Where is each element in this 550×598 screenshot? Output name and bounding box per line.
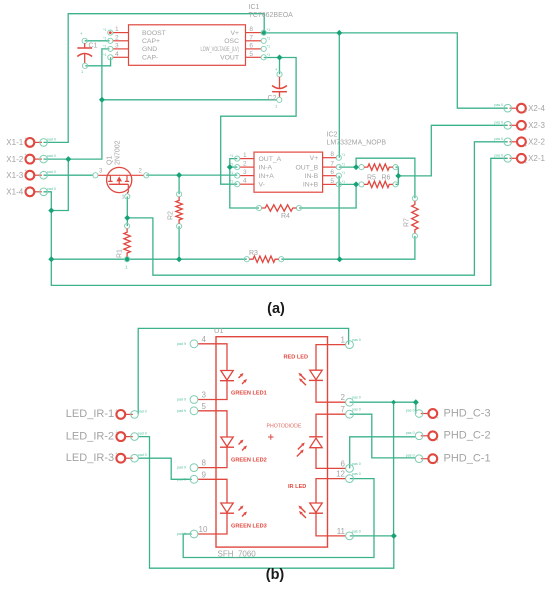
svg-text:pad 0: pad 0 (138, 453, 147, 457)
svg-text:*1: *1 (230, 180, 233, 184)
svg-text:1: 1 (275, 104, 278, 109)
svg-text:1: 1 (243, 152, 247, 159)
svg-text:1: 1 (125, 265, 128, 270)
svg-text:*1: *1 (342, 153, 345, 157)
svg-text:+: + (524, 110, 527, 116)
svg-text:V-: V- (259, 181, 265, 188)
svg-text:pad 9: pad 9 (177, 532, 186, 536)
svg-text:(a): (a) (267, 301, 285, 317)
svg-text:pad 0: pad 0 (138, 409, 147, 413)
svg-text:X1-1: X1-1 (6, 138, 23, 147)
svg-text:X2-1: X2-1 (528, 154, 545, 163)
svg-text:X2-4: X2-4 (528, 104, 545, 113)
svg-text:pas 0: pas 0 (494, 137, 503, 141)
svg-text:*1: *1 (103, 44, 106, 48)
svg-text:4: 4 (115, 51, 119, 58)
svg-text:3: 3 (115, 42, 119, 49)
svg-text:+: + (24, 136, 27, 142)
svg-text:*1: *1 (267, 44, 270, 48)
svg-text:*1: *1 (342, 180, 345, 184)
svg-text:IN-A: IN-A (259, 164, 273, 171)
svg-text:pad 0: pad 0 (47, 170, 56, 174)
svg-text:4: 4 (243, 178, 247, 185)
svg-text:R4: R4 (281, 213, 290, 220)
svg-text:GREEN LED2: GREEN LED2 (231, 458, 267, 464)
svg-text:VOUT: VOUT (220, 55, 239, 62)
svg-text:2: 2 (115, 34, 119, 41)
svg-text:pad 9: pad 9 (177, 409, 186, 413)
svg-text:X1-2: X1-2 (6, 155, 23, 164)
svg-text:TC7662BEOA: TC7662BEOA (249, 12, 294, 19)
svg-text:SFH_7060: SFH_7060 (218, 550, 257, 559)
svg-text:LED_IR-2: LED_IR-2 (66, 430, 114, 442)
svg-text:3: 3 (99, 169, 103, 175)
svg-text:CAP-: CAP- (142, 55, 158, 62)
svg-text:+: + (24, 185, 27, 191)
svg-text:IN-B: IN-B (305, 173, 319, 180)
svg-text:*1: *1 (230, 163, 233, 167)
svg-text:8: 8 (202, 459, 207, 468)
svg-text:CAP+: CAP+ (142, 38, 160, 45)
svg-text:LM7332MA_NOPB: LM7332MA_NOPB (327, 140, 387, 147)
svg-text:LED_IR-3: LED_IR-3 (66, 452, 114, 464)
svg-text:+: + (524, 160, 527, 166)
svg-text:6: 6 (330, 169, 334, 176)
svg-text:7: 7 (249, 34, 253, 41)
svg-text:+: + (24, 169, 27, 175)
svg-text:IN+A: IN+A (259, 173, 275, 180)
svg-text:RED LED: RED LED (284, 355, 309, 361)
svg-text:OUT_A: OUT_A (259, 156, 282, 163)
svg-text:pas 0: pas 0 (494, 103, 503, 107)
svg-text:pas 0: pas 0 (352, 408, 361, 412)
svg-text:pad 0: pad 0 (47, 137, 56, 141)
svg-text:2: 2 (341, 393, 346, 402)
svg-text:+: + (115, 408, 118, 414)
svg-text:pad 9: pad 9 (177, 466, 186, 470)
svg-text:+: + (524, 143, 527, 149)
svg-text:BOOST: BOOST (142, 30, 166, 37)
svg-text:U1: U1 (214, 326, 224, 335)
svg-text:12: 12 (336, 470, 345, 479)
svg-text:+: + (80, 31, 83, 36)
svg-text:X1-3: X1-3 (6, 171, 23, 180)
svg-text:pas 0: pas 0 (406, 454, 415, 458)
svg-text:*1: *1 (103, 28, 106, 32)
svg-text:GND: GND (142, 46, 157, 53)
svg-text:11: 11 (337, 527, 346, 536)
svg-text:C1: C1 (89, 43, 98, 50)
svg-text:2: 2 (243, 161, 247, 168)
svg-text:7: 7 (330, 161, 334, 168)
svg-text:5: 5 (249, 51, 253, 58)
svg-text:pas 0: pas 0 (352, 462, 361, 466)
svg-text:PHD_C-1: PHD_C-1 (444, 453, 491, 465)
svg-text:5: 5 (330, 178, 334, 185)
svg-text:pas 0: pas 0 (352, 338, 361, 342)
svg-text:9: 9 (202, 470, 207, 479)
svg-text:+: + (24, 153, 27, 159)
svg-text:OUT_B: OUT_B (296, 164, 319, 171)
svg-text:R1: R1 (117, 249, 124, 258)
svg-text:*1: *1 (342, 171, 345, 175)
svg-text:PHD_C-3: PHD_C-3 (444, 407, 491, 419)
svg-text:*1: *1 (103, 53, 106, 57)
svg-text:LED_IR-1: LED_IR-1 (66, 408, 114, 420)
svg-text:IC1: IC1 (249, 4, 260, 11)
svg-text:PHD_C-2: PHD_C-2 (444, 430, 491, 442)
svg-text:pas 0: pas 0 (352, 472, 361, 476)
svg-text:10: 10 (199, 525, 208, 534)
svg-text:GREEN LED3: GREEN LED3 (231, 524, 267, 530)
svg-text:pas 0: pas 0 (406, 409, 415, 413)
svg-text:+: + (436, 437, 439, 443)
svg-text:pas 0: pas 0 (494, 120, 503, 124)
svg-text:*1: *1 (267, 36, 270, 40)
svg-text:*1: *1 (230, 171, 233, 175)
svg-text:1: 1 (122, 195, 125, 201)
svg-text:pas 0: pas 0 (352, 529, 361, 533)
svg-text:1: 1 (341, 336, 346, 345)
svg-text:X2-3: X2-3 (528, 121, 545, 130)
svg-text:pad 9: pad 9 (177, 477, 186, 481)
svg-text:X1-4: X1-4 (6, 188, 23, 197)
svg-text:PHOTODIODE: PHOTODIODE (267, 424, 302, 430)
svg-text:*1: *1 (267, 28, 270, 32)
svg-text:IR LED: IR LED (288, 484, 306, 490)
svg-text:*1: *1 (103, 36, 106, 40)
svg-text:pas 0: pas 0 (352, 396, 361, 400)
svg-text:2: 2 (139, 169, 143, 175)
svg-text:1: 1 (81, 69, 84, 74)
svg-text:3: 3 (202, 391, 207, 400)
svg-text:*1: *1 (230, 154, 233, 158)
svg-text:pas 0: pas 0 (406, 431, 415, 435)
svg-text:6: 6 (341, 459, 346, 468)
svg-text:IN+B: IN+B (303, 182, 319, 189)
svg-text:IC2: IC2 (327, 132, 338, 139)
svg-text:4: 4 (202, 335, 207, 344)
svg-text:+: + (436, 460, 439, 466)
svg-text:pad 9: pad 9 (177, 342, 186, 346)
svg-text:+: + (436, 415, 439, 421)
svg-text:+: + (275, 67, 278, 72)
svg-text:6: 6 (249, 42, 253, 49)
svg-text:+: + (115, 452, 118, 458)
svg-text:V+: V+ (230, 30, 239, 37)
svg-text:8: 8 (330, 151, 334, 158)
svg-text:pad 9: pad 9 (177, 398, 186, 402)
svg-text:1: 1 (115, 26, 119, 33)
svg-text:8: 8 (249, 26, 253, 33)
svg-text:pad 0: pad 0 (138, 432, 147, 436)
svg-text:pad 0: pad 0 (47, 187, 56, 191)
svg-text:LOW_VOLTAGE_(LV): LOW_VOLTAGE_(LV) (201, 46, 240, 53)
svg-text:V+: V+ (310, 155, 319, 162)
svg-text:R7: R7 (404, 218, 411, 227)
svg-text:*1: *1 (267, 53, 270, 57)
svg-text:+: + (524, 127, 527, 133)
svg-text:3: 3 (243, 169, 247, 176)
svg-text:R2: R2 (168, 211, 175, 220)
svg-text:5: 5 (202, 402, 207, 411)
svg-text:pad 0: pad 0 (47, 154, 56, 158)
svg-text:C2: C2 (268, 95, 277, 102)
svg-text:+: + (115, 430, 118, 436)
svg-text:X2-2: X2-2 (528, 138, 545, 147)
svg-text:R3: R3 (249, 250, 258, 257)
svg-text:pas 0: pas 0 (494, 153, 503, 157)
svg-text:Q1: Q1 (107, 156, 114, 165)
svg-text:*1: *1 (342, 163, 345, 167)
svg-text:OSC: OSC (224, 38, 239, 45)
svg-text:7: 7 (341, 405, 346, 414)
svg-text:GREEN LED1: GREEN LED1 (231, 391, 267, 397)
svg-text:(b): (b) (266, 567, 285, 583)
svg-text:R6: R6 (382, 175, 391, 182)
svg-text:2N7002: 2N7002 (115, 140, 122, 165)
